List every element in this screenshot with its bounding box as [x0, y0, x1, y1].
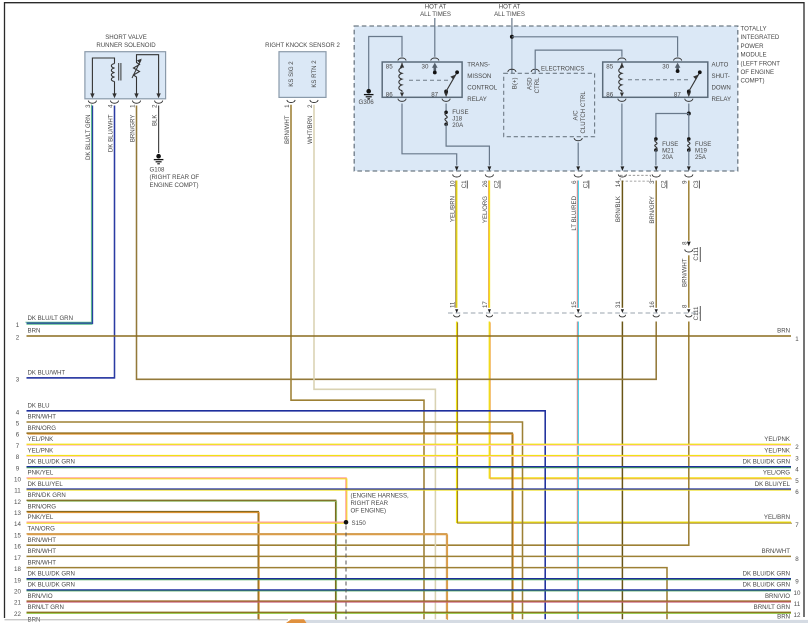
svg-text:17: 17 [14, 555, 21, 562]
ASD relay mech link (dashed) [628, 79, 688, 81]
wire: junction to fuse M21 [656, 114, 689, 138]
svg-text:ELECTRONICS: ELECTRONICS [541, 65, 584, 72]
ASD relay pin 87 arrow [687, 93, 691, 98]
svg-text:13: 13 [14, 510, 21, 517]
in-line connector C111 pin 15 [571, 301, 581, 317]
svg-text:ASD: ASD [527, 77, 534, 90]
S150 dashed lead to bottom [345, 526, 347, 620]
svg-text:DK BLU/DK GRN: DK BLU/DK GRN [28, 571, 75, 578]
wire: hot feed down to B(+) junction [511, 18, 513, 73]
svg-text:14: 14 [14, 521, 21, 528]
svg-text:4: 4 [16, 409, 20, 416]
svg-text:3: 3 [795, 455, 799, 462]
wire BRN/GRY pin3 upper segment [655, 181, 657, 308]
svg-text:TRANS-: TRANS- [467, 61, 490, 68]
wire row 9 DK BLU/DK GRN full width [27, 466, 792, 469]
svg-text:DK BLU/WHT: DK BLU/WHT [28, 370, 66, 377]
wire: TCM pin 86 to TIPM pin 10 [402, 104, 457, 166]
svg-text:G306: G306 [359, 99, 375, 106]
svg-text:YEL/BRN: YEL/BRN [764, 514, 790, 521]
bracket below ASD pin 87 [685, 99, 693, 102]
label HOT AT ALL TIMES (left feed) [420, 4, 451, 19]
solenoid pin 3 bracket [85, 101, 96, 108]
svg-text:(RIGHT REAR OF: (RIGHT REAR OF [150, 174, 200, 181]
row 20 left label/number [14, 582, 75, 596]
wire row 13 BRN/ORG to bottom [27, 512, 260, 621]
wire row 10 PNK/YEL to splice S150 [27, 478, 347, 523]
wire row 1 DK BLU/LT GRN segment [27, 322, 93, 325]
electronics pin label B(+) [512, 78, 519, 90]
svg-text:ENGINE COMPT): ENGINE COMPT) [150, 182, 199, 189]
row 19 left label/number [14, 571, 75, 585]
svg-text:20A: 20A [662, 154, 674, 161]
svg-text:19: 19 [14, 577, 21, 584]
svg-text:BRN/DK GRN: BRN/DK GRN [28, 492, 66, 499]
wire row 15 TAN/ORG to bottom [27, 534, 448, 620]
wire: fuse M19 to TIPM pin 9 [688, 150, 690, 165]
svg-text:86: 86 [386, 91, 393, 98]
solenoid pin 2 bracket [151, 101, 162, 108]
svg-text:G108: G108 [150, 167, 166, 174]
TIPM connector pin 26 [482, 166, 500, 188]
wire row 2 BRN full width [27, 335, 792, 337]
bracket below TCM pin 87 [442, 99, 450, 102]
wire YEL/BRN pin10 upper segment [455, 181, 458, 308]
bracket above ASD pin 85 [618, 58, 626, 61]
TIPM connector pin 9 [682, 166, 700, 188]
wire row 16 BRN/WHT (drawn with pin9 wire) [0, 0, 1, 1]
fuse M19 [687, 137, 691, 152]
label G108 (right rear of engine compt) [150, 167, 200, 189]
TCM relay mech link (dashed) [409, 79, 449, 81]
ASD relay pin 30 contact node [676, 69, 680, 73]
svg-text:11: 11 [794, 601, 801, 608]
svg-text:BRN/ORG: BRN/ORG [28, 425, 57, 432]
wire DK BLU/LT GRN solenoid pin3 to row 1 [25, 105, 92, 324]
svg-text:B(+): B(+) [512, 78, 519, 90]
solenoid internal wire pin3 loop [92, 58, 114, 94]
knock sensor pin label KS RTN 2 [311, 60, 318, 88]
wire row 22 BRN/LT GRN full width [27, 611, 792, 614]
svg-text:BRN/GRY: BRN/GRY [649, 196, 656, 224]
solenoid pin 1 bracket [129, 101, 140, 108]
wire: ASD pin 86 to TIPM pin 14 [621, 104, 623, 166]
label ELECTRONICS [541, 65, 584, 72]
svg-text:POWER: POWER [741, 43, 765, 50]
TIPM connector pin 6 [571, 166, 589, 188]
wire row 6 BRN/ORG to bottom [27, 433, 514, 620]
svg-text:5: 5 [795, 478, 799, 485]
ASD relay pin label 86 [606, 91, 613, 98]
svg-text:SHUT-: SHUT- [712, 73, 730, 80]
solenoid coil [111, 63, 121, 94]
svg-text:YEL/ORG: YEL/ORG [763, 470, 790, 477]
bracket below ASD pin 86 [618, 99, 626, 102]
label G306 [359, 99, 375, 106]
in-line connector C111 dashed line [448, 312, 700, 314]
row right 11 label/number [765, 593, 801, 608]
wire row 18 BRN/WHT to bottom [27, 568, 668, 620]
svg-text:8: 8 [795, 556, 799, 563]
row 11 left label/number [14, 481, 63, 495]
svg-text:BRN/WHT: BRN/WHT [28, 548, 57, 555]
wire label BRN/GRY (solenoid pin1) [129, 115, 136, 143]
TCM relay pin 87 arrow [444, 91, 448, 97]
svg-text:6: 6 [16, 432, 20, 439]
in-line connector C111 pin 11 [450, 301, 460, 317]
svg-text:87: 87 [431, 91, 438, 98]
wire row 7 YEL/PNK full width [27, 443, 792, 446]
svg-text:C111: C111 [693, 306, 700, 320]
svg-text:PNK/YEL: PNK/YEL [28, 470, 54, 477]
wire YEL/ORG pin26 upper segment [487, 181, 490, 308]
wire: junction to fuse M19 [688, 114, 690, 138]
svg-text:18: 18 [14, 566, 21, 573]
wire YEL/ORG lower segment to right edge [489, 322, 792, 479]
wire: fuse J18 to TIPM pin 26 [446, 124, 489, 165]
svg-text:10: 10 [14, 477, 21, 484]
svg-text:BRN/WHT: BRN/WHT [284, 115, 291, 144]
svg-text:A/C: A/C [573, 110, 580, 121]
wire YEL/BRN lower segment to right edge [457, 322, 792, 524]
svg-text:15: 15 [14, 532, 21, 539]
wire: TCM relay pin 85 to ground G306 [369, 37, 402, 90]
svg-text:30: 30 [422, 64, 429, 71]
svg-text:BRN/VIO: BRN/VIO [28, 593, 53, 600]
wire label LT BLU/RED [571, 195, 578, 230]
TCM relay pin 30 contact node [433, 71, 437, 75]
svg-text:WHT/BRN: WHT/BRN [307, 116, 314, 144]
svg-text:22: 22 [14, 611, 21, 618]
svg-text:HOT AT: HOT AT [499, 4, 521, 11]
bracket above electronics ASD CTRL pin [531, 69, 539, 72]
svg-text:14: 14 [615, 180, 622, 187]
svg-text:BLK: BLK [151, 115, 158, 127]
junction node on B(+) feed [510, 35, 514, 39]
svg-text:CLUTCH CTRL: CLUTCH CTRL [580, 91, 587, 134]
svg-text:YEL/PNK: YEL/PNK [28, 447, 54, 454]
row 22 left label/number [14, 604, 64, 618]
row 7 left label/number [16, 436, 53, 450]
row 3 left label/number [16, 370, 66, 384]
svg-text:3: 3 [16, 376, 20, 383]
svg-text:17: 17 [482, 301, 489, 308]
wire label BRN/WHT (pin 9) [682, 258, 689, 287]
TCM relay label [467, 61, 497, 103]
svg-text:COMPT): COMPT) [741, 78, 765, 85]
svg-text:11: 11 [450, 301, 457, 308]
svg-text:BRN/VIO: BRN/VIO [765, 593, 790, 600]
wire label DK BLU/WHT (solenoid pin4) [107, 114, 114, 152]
ASD relay pin label 30 [662, 64, 669, 71]
ASD relay switch blade [687, 70, 702, 93]
row right 10 label/number [743, 582, 801, 597]
wire label BLK (solenoid pin2) [151, 115, 158, 127]
wire label WHT/BRN (knock pin2) [307, 116, 314, 144]
row 12 left label/number [14, 492, 66, 506]
svg-text:OF ENGINE): OF ENGINE) [351, 508, 387, 515]
bracket above TCM pin 30 [431, 58, 439, 61]
bottom scrollbar gray strip [301, 620, 808, 623]
row right 5 label/number [763, 470, 799, 485]
TCM relay pin label 87 [431, 91, 438, 98]
TCM relay switch blade [444, 70, 459, 93]
ASD relay label [712, 61, 732, 103]
row right 8 label/number [762, 548, 800, 563]
row right 7 label/number [764, 514, 799, 529]
svg-text:21: 21 [14, 600, 21, 607]
relay box: transmission control relay [382, 62, 462, 97]
svg-text:9: 9 [16, 465, 20, 472]
wire: ASD CTRL to ASD relay pin 85 [535, 50, 622, 73]
svg-text:DK BLU/DK GRN: DK BLU/DK GRN [28, 459, 75, 466]
electronics box (dashed) [504, 73, 595, 136]
bracket above ASD pin 30 [674, 58, 682, 61]
wire label YEL/BRN [450, 196, 457, 222]
TIPM label: TOTALLY INTEGRATED POWER MODULE [741, 26, 781, 85]
row 6 left label/number [16, 425, 56, 439]
svg-text:KS RTN 2: KS RTN 2 [311, 60, 318, 88]
wire BRN/GRY lower segment to solenoid [137, 106, 657, 380]
svg-text:MISSON: MISSON [467, 73, 491, 80]
row 21 left label/number [14, 593, 53, 607]
svg-text:BRN/LT GRN: BRN/LT GRN [754, 604, 790, 611]
solenoid resistor element [132, 55, 159, 94]
wire row 8 YEL/PNK full width [27, 455, 792, 458]
svg-text:DK BLU/WHT: DK BLU/WHT [107, 114, 114, 152]
svg-text:DK BLU/DK GRN: DK BLU/DK GRN [743, 571, 790, 578]
svg-text:YEL/PNK: YEL/PNK [764, 436, 790, 443]
electronics pin label ASD CTRL [527, 77, 542, 94]
svg-text:(LEFT FRONT: (LEFT FRONT [741, 60, 781, 67]
fuse J18 label [452, 109, 468, 129]
svg-text:7: 7 [16, 443, 20, 450]
in-line connector C111 pin 8 [682, 304, 692, 317]
ASD relay pin label 85 [606, 64, 613, 71]
svg-text:RUNNER SOLENOID: RUNNER SOLENOID [96, 42, 156, 49]
bracket above TCM pin 85 [398, 58, 406, 61]
wire label DK BLU/LT GRN (solenoid pin3) [85, 115, 92, 161]
fuse J18 [444, 111, 448, 127]
wire: A/C CLUTCH CTRL to TIPM pin 6 [577, 143, 579, 166]
svg-text:85: 85 [606, 64, 613, 71]
svg-text:BRN: BRN [777, 613, 790, 620]
row 10 left label/number [14, 470, 54, 484]
svg-text:20: 20 [14, 589, 21, 596]
svg-text:85: 85 [386, 64, 393, 71]
ground G108 symbol [154, 154, 164, 164]
svg-text:BRN/WHT: BRN/WHT [28, 537, 57, 544]
knock sensor title [265, 42, 340, 49]
TIPM connector pin 14 [615, 166, 626, 187]
svg-text:RELAY: RELAY [712, 96, 732, 103]
wire row 12 BRN/DK GRN to bottom [27, 500, 337, 620]
row right 1 label/number [777, 328, 799, 343]
row right 13 label BRN [777, 613, 790, 620]
svg-text:15: 15 [571, 301, 578, 308]
row 1 left label/number [16, 315, 73, 329]
svg-text:AUTO: AUTO [712, 61, 729, 68]
component box: short valve runner solenoid [85, 52, 166, 99]
bottom diagram edge line (left) [5, 619, 289, 621]
wire: hot feed to TCM relay pin 30 [434, 18, 436, 57]
wire WHT/BRN knock pin2 routing [314, 105, 435, 620]
row 5 left label/number [16, 414, 56, 428]
bracket below electronics A/C pin [574, 138, 582, 141]
TCM relay pin label 86 [386, 91, 393, 98]
svg-text:RELAY: RELAY [467, 96, 487, 103]
TCM relay pin 30 stub with arrow [432, 63, 438, 73]
svg-text:BRN: BRN [28, 328, 41, 335]
svg-text:BRN/WHT: BRN/WHT [28, 559, 57, 566]
knock sensor pin 1 bracket [284, 100, 295, 108]
svg-text:RIGHT KNOCK SENSOR 2: RIGHT KNOCK SENSOR 2 [265, 42, 340, 49]
solenoid title [96, 34, 156, 49]
svg-text:16: 16 [14, 544, 21, 551]
wire row 5 BRN/WHT to bottom [27, 422, 523, 619]
svg-text:5: 5 [16, 421, 20, 428]
ASD relay pin label 87 [674, 91, 681, 98]
TCM relay coil [399, 63, 404, 97]
wire row 4 DK BLU to bottom [27, 411, 546, 620]
svg-text:DK BLU: DK BLU [28, 403, 50, 410]
wire BRN/WHT pin9 upper segment [688, 181, 690, 241]
svg-text:CONTROL: CONTROL [467, 85, 497, 92]
svg-text:DOWN: DOWN [712, 85, 731, 92]
svg-text:INTEGRATED: INTEGRATED [741, 34, 780, 41]
svg-text:KS SIG 2: KS SIG 2 [288, 61, 295, 87]
row 4 left label/number [16, 403, 50, 417]
dashed connector grouping box pins 14/3 [620, 175, 650, 181]
svg-text:ALL TIMES: ALL TIMES [494, 11, 525, 18]
component box: right knock sensor 2 [279, 52, 326, 98]
svg-text:1: 1 [16, 322, 20, 329]
row right 2 label/number [764, 436, 799, 451]
svg-text:BRN/LT GRN: BRN/LT GRN [28, 604, 64, 611]
wire row 20 DK BLU/DK GRN full width [27, 589, 792, 592]
TIPM connector pin 10 [450, 166, 468, 188]
wire row 17 BRN/WHT full width [27, 555, 792, 557]
wire BLK solenoid pin2 to ground G108 [158, 106, 160, 154]
row right 4 label/number [743, 459, 800, 474]
row 15 left label/number [14, 526, 55, 540]
svg-text:YEL/PNK: YEL/PNK [764, 447, 790, 454]
svg-text:BRN/WHT: BRN/WHT [28, 414, 57, 421]
svg-text:DK BLU/DK GRN: DK BLU/DK GRN [28, 582, 75, 589]
splice S150 node [344, 520, 349, 525]
wire label BRN/BLK [615, 196, 622, 222]
svg-text:HOT AT: HOT AT [425, 4, 447, 11]
svg-text:12: 12 [14, 499, 21, 506]
svg-text:7: 7 [795, 522, 799, 529]
svg-text:DK BLU/YEL: DK BLU/YEL [755, 481, 791, 488]
label HOT AT ALL TIMES (right feed) [494, 4, 525, 19]
fuse M21 [654, 137, 658, 152]
svg-text:BRN/BLK: BRN/BLK [615, 196, 622, 222]
svg-text:12: 12 [794, 612, 801, 619]
bracket above electronics B(+) pin [508, 69, 516, 72]
svg-text:DK BLU/DK GRN: DK BLU/DK GRN [743, 582, 790, 589]
wire row 3 DK BLU/WHT segment [27, 377, 115, 379]
svg-text:25A: 25A [695, 154, 707, 161]
bottom orange button fragment [286, 619, 307, 623]
S150 harness note [351, 493, 410, 527]
solenoid pin2 arrow [156, 93, 160, 98]
row right 9 label/number [743, 571, 800, 586]
svg-text:BRN/WHT: BRN/WHT [762, 548, 791, 555]
wire BRN/WHT pin9 middle segment [688, 255, 690, 307]
fuse M19 label [695, 141, 711, 161]
wire row 21 BRN/VIO full width [27, 600, 792, 603]
svg-text:DK BLU/YEL: DK BLU/YEL [28, 481, 64, 488]
in-line connector C111 pin 16 [649, 301, 659, 317]
svg-text:20A: 20A [452, 122, 464, 129]
svg-text:ALL TIMES: ALL TIMES [420, 11, 451, 18]
svg-text:1: 1 [795, 336, 799, 343]
TIPM connector pin 3 [649, 166, 667, 188]
knock sensor pin 2 bracket [307, 100, 318, 108]
wire LT BLU/RED pin6 upper segment [576, 181, 579, 308]
wire label YEL/ORG [482, 196, 489, 223]
svg-text:S150: S150 [352, 520, 367, 527]
TCM relay pin label 85 [386, 64, 393, 71]
row 23 left label BRN [28, 617, 41, 623]
wire row 14 PNK/YEL to splice S150 [27, 521, 345, 524]
ASD relay pin 30 stub with arrow [675, 63, 681, 72]
svg-text:4: 4 [795, 467, 799, 474]
wire BRN/BLK pin14 upper segment [621, 181, 623, 308]
solenoid pin4 arrow [112, 93, 116, 98]
svg-text:TOTALLY: TOTALLY [741, 26, 767, 33]
row 17 left label/number [14, 548, 56, 562]
row 9 left label/number [16, 459, 75, 473]
junction node under ASD pin 87 [687, 112, 691, 116]
row right 3 label/number [764, 447, 799, 462]
svg-text:SHORT VALVE: SHORT VALVE [105, 34, 147, 41]
row 8 left label/number [16, 447, 53, 461]
wire BRN/WHT pin9 lower segment to row 16 [27, 322, 689, 546]
svg-text:TAN/ORG: TAN/ORG [28, 526, 56, 533]
in-line connector C111 upper break pin 8 [682, 241, 701, 262]
svg-text:30: 30 [662, 64, 669, 71]
svg-text:31: 31 [615, 301, 622, 308]
wire: fuse M21 to TIPM pin 3 [655, 150, 657, 165]
knock sensor pin label KS SIG 2 [288, 61, 295, 87]
wire row 11 DK BLU/YEL full width [27, 488, 792, 491]
row 2 left label/number [16, 328, 41, 342]
row 18 left label/number [14, 559, 56, 573]
row 13 left label/number [14, 503, 56, 517]
svg-text:2: 2 [795, 444, 799, 451]
svg-text:11: 11 [14, 488, 21, 495]
wire row 19 DK BLU/DK GRN full width [27, 578, 792, 581]
wire DK BLU/WHT solenoid pin4 to row 3 [27, 106, 115, 378]
svg-text:10: 10 [794, 590, 801, 597]
wire BRN/BLK lower segment to bottom [621, 322, 623, 620]
wire: ASD pin 87 to fuse junction [688, 104, 690, 114]
svg-text:MODULE: MODULE [741, 52, 767, 59]
svg-text:PNK/YEL: PNK/YEL [28, 514, 54, 521]
electronics pin label A/C CLUTCH CTRL [573, 91, 588, 134]
bracket below TCM pin 86 [398, 99, 406, 102]
TIPM module box (dashed) [354, 26, 738, 171]
TCM relay pin label 30 [422, 64, 429, 71]
svg-text:6: 6 [795, 489, 799, 496]
svg-text:16: 16 [649, 301, 656, 308]
svg-text:86: 86 [606, 91, 613, 98]
row right 12 label/number [754, 604, 801, 619]
in-line connector label C111 [693, 306, 700, 321]
